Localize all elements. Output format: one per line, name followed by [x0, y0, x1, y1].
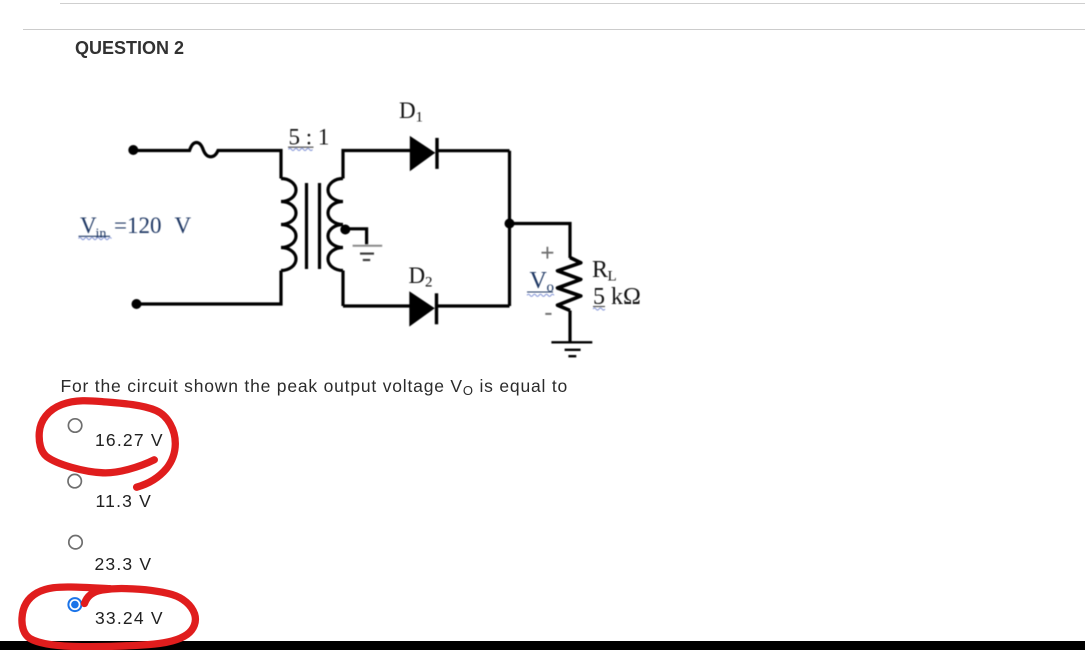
- node: output junction: [505, 219, 515, 229]
- option label 33.24 V: [95, 610, 164, 628]
- squiggle under Vin: [79, 238, 112, 240]
- plus sign: [542, 247, 554, 259]
- node: center tap: [340, 225, 350, 235]
- option label 11.3 V: [96, 493, 153, 511]
- wire: bottom-left: [137, 271, 282, 305]
- ground (center tap): [353, 246, 383, 260]
- terminal node (top left): [128, 145, 138, 155]
- diode D2 cathode bar: [435, 293, 438, 324]
- wire: RL bottom to ground: [568, 311, 571, 343]
- diode D1 triangle: [410, 136, 436, 171]
- radio option 4 (selected): [68, 598, 81, 611]
- radio option 2 (unselected): [68, 474, 81, 487]
- option label 23.3 V: [95, 556, 153, 574]
- squiggle under 5 :: [289, 148, 313, 150]
- squiggle under 5: [593, 308, 605, 310]
- option label 16.27 V: [95, 432, 164, 450]
- transformer T1 secondary coil: [328, 179, 343, 271]
- wire: D1 to right rail: [437, 149, 510, 152]
- minus sign: [545, 313, 551, 315]
- radio option 1 (unselected): [68, 419, 81, 432]
- red circle around option 1: [39, 401, 175, 487]
- wire: output node to RL: [510, 224, 571, 259]
- question text: [61, 378, 569, 400]
- ground (below RL): [551, 342, 592, 356]
- wire: D2 to right rail: [438, 304, 510, 307]
- diode D1 cathode bar: [435, 138, 438, 169]
- transformer T1 core: [307, 183, 320, 269]
- wire: center tap to ground: [345, 229, 366, 245]
- heading QUESTION 2: [75, 39, 184, 57]
- bottom black bar: [0, 641, 1085, 650]
- transformer T1 primary coil: [281, 179, 296, 271]
- resistor RL zigzag: [558, 258, 581, 311]
- top rule 1: [60, 3, 1085, 4]
- top rule 2: [23, 29, 1085, 30]
- diode D2 triangle: [409, 291, 435, 326]
- wire: secondary bottom to D2: [343, 271, 410, 307]
- wire: secondary top to D1: [343, 151, 410, 179]
- squiggle under Vo: [527, 294, 554, 296]
- wire: right rail: [508, 151, 511, 306]
- radio option 3 (unselected): [69, 536, 82, 549]
- red circle around option 4: [22, 587, 195, 647]
- wire: top-left with squiggle: [133, 142, 281, 178]
- terminal node (bottom left): [132, 299, 142, 309]
